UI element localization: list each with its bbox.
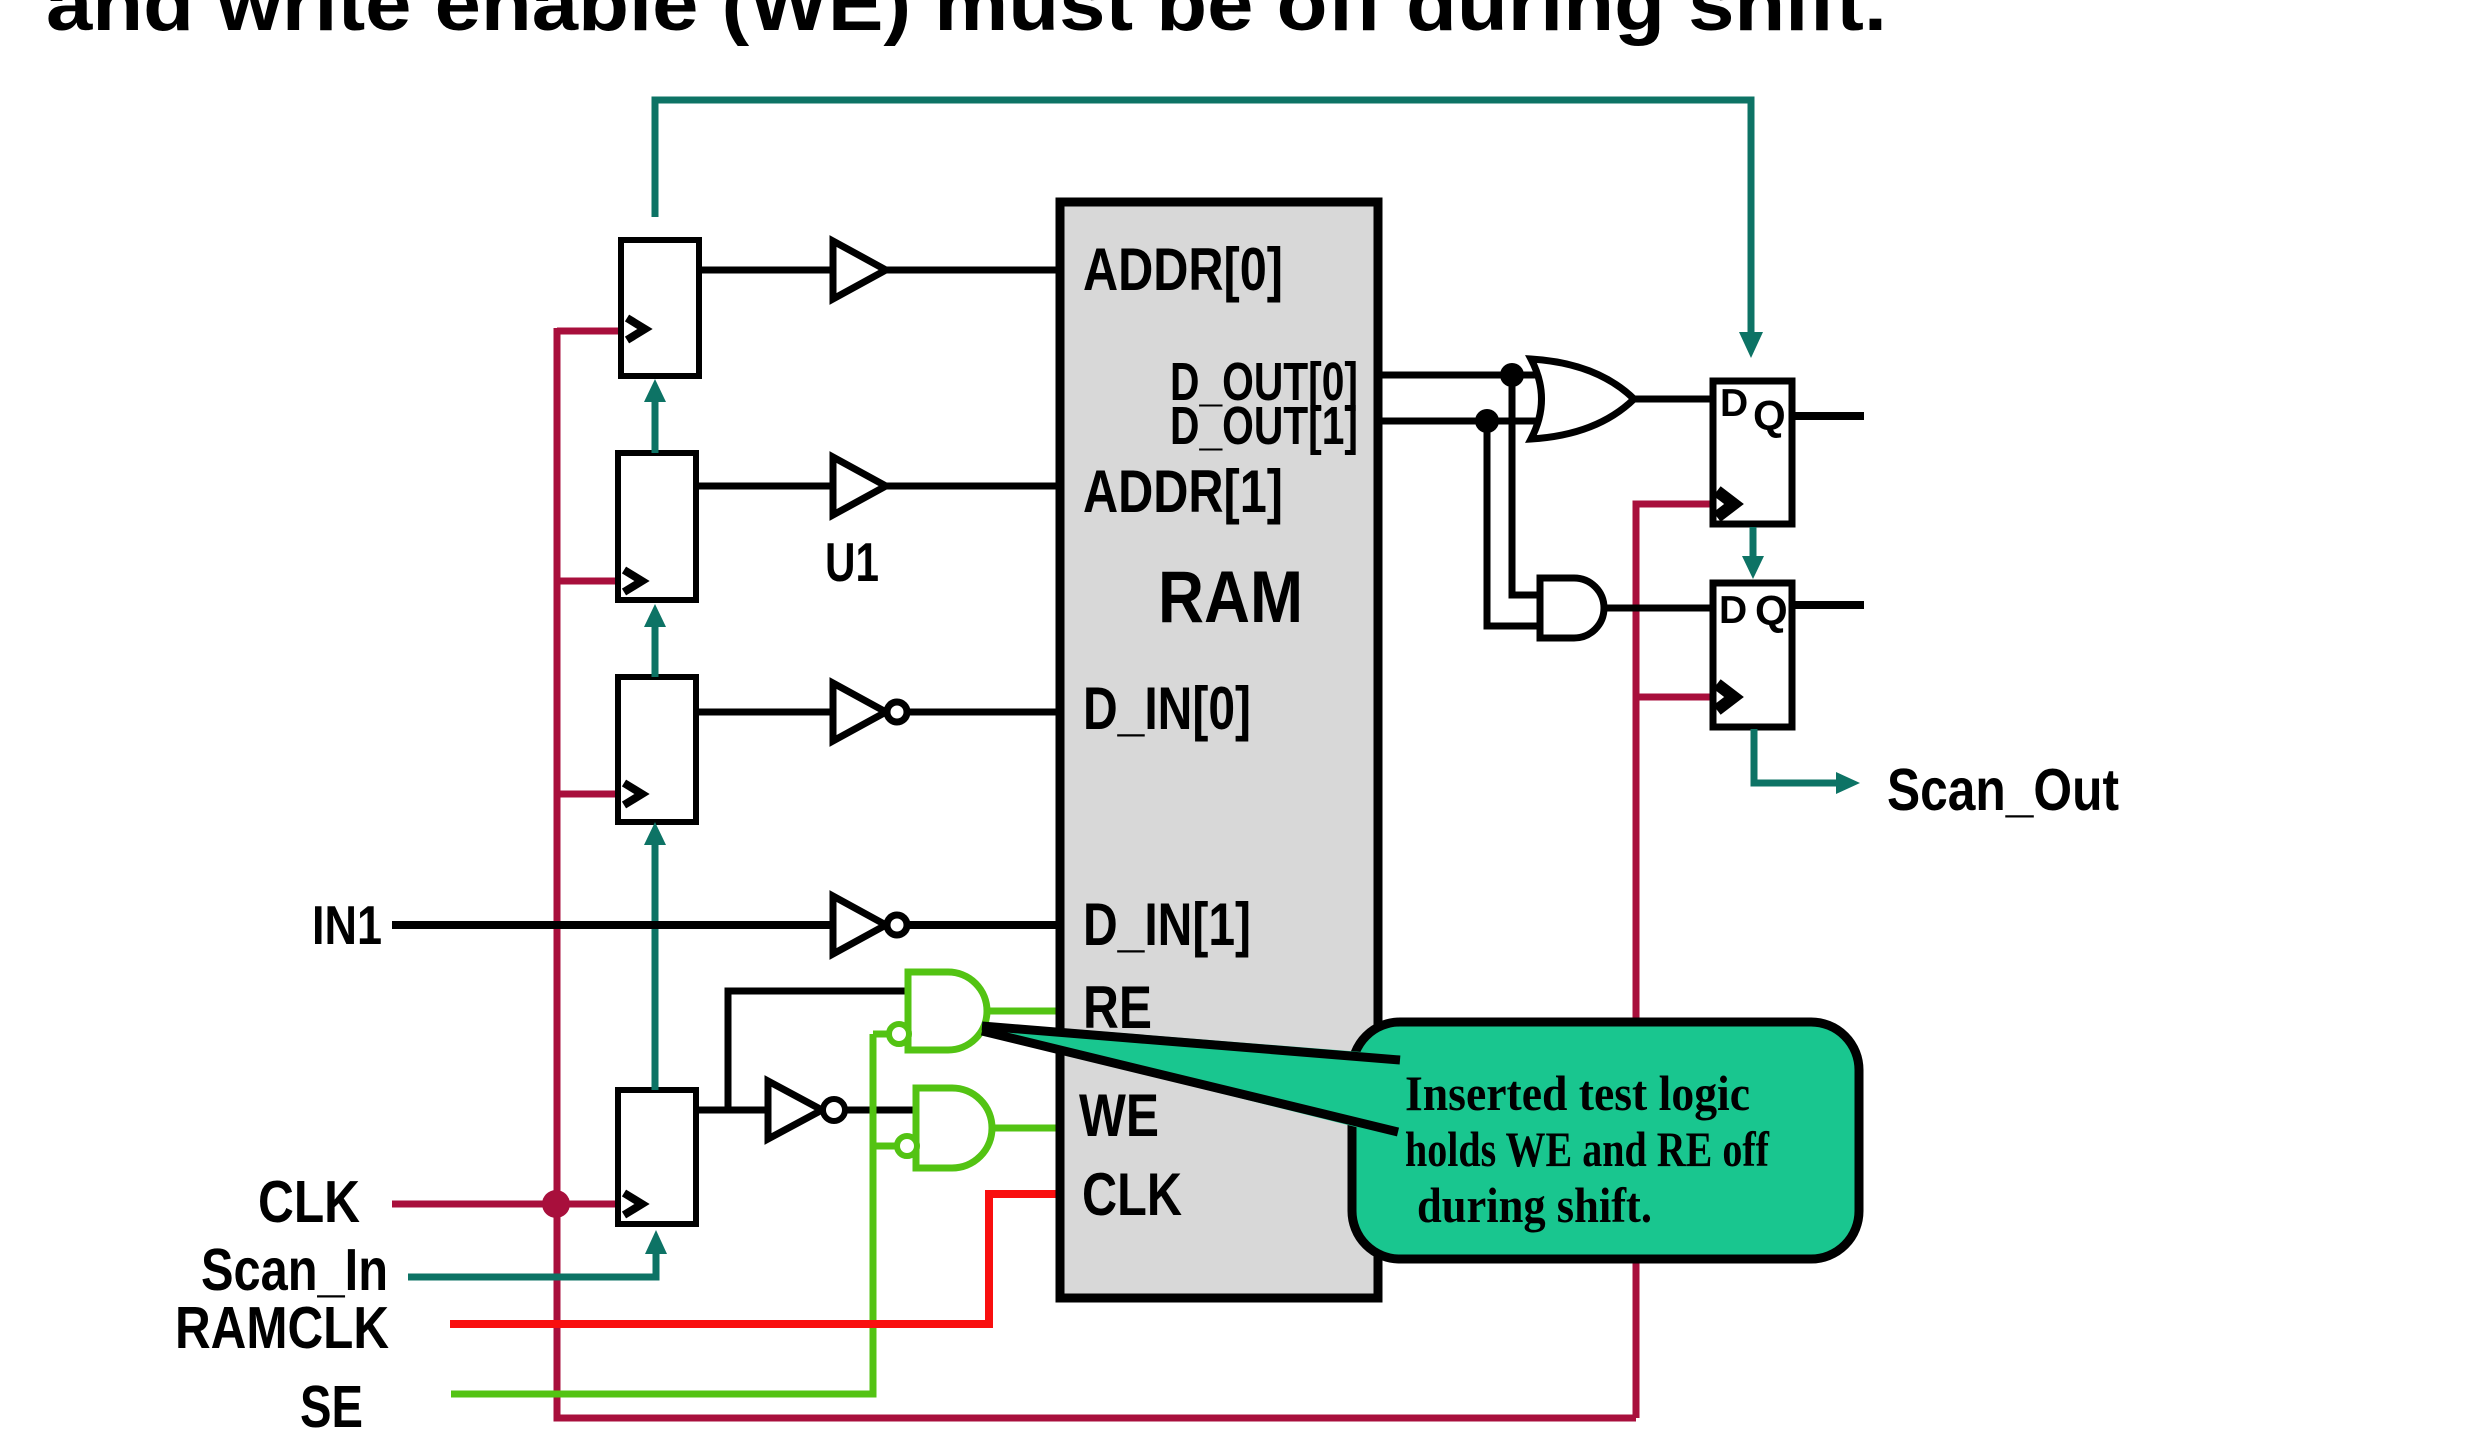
wire inverter to WE NAND input <box>846 1107 916 1114</box>
flip-flop FF3 <box>618 677 696 822</box>
wire Scan_Out (teal) <box>1754 729 1836 783</box>
wire branch up to RE NAND input <box>728 991 908 1110</box>
wire RAMCLK (red) <box>450 1194 1060 1324</box>
wire DFF6 Q out <box>1792 601 1864 609</box>
buffer U1b <box>833 457 886 515</box>
and gate AND1 <box>1540 578 1604 638</box>
wire SE stub to RE NAND bubble <box>873 1031 890 1038</box>
wire scan arrow FF3 to FF2 (teal) <box>652 626 659 677</box>
wire arrowhead into DFF5 <box>1739 332 1763 358</box>
wire FF4 Q to inverter INV3 <box>696 1107 770 1114</box>
svg-text:SE: SE <box>300 1374 363 1440</box>
wire D_OUT[1] <box>1378 418 1536 425</box>
svg-text:WE: WE <box>1079 1082 1159 1149</box>
svg-text:Scan_Out: Scan_Out <box>1887 757 2119 823</box>
flip-flop DFF5 <box>1713 381 1792 524</box>
buffer U1a <box>833 241 886 299</box>
nand gate RE (green) <box>908 972 987 1050</box>
wire CLK net (maroon) vertical trunk <box>557 328 1636 1418</box>
svg-text:Inserted test logic: Inserted test logic <box>1405 1065 1750 1121</box>
wire FF3 to inverter <box>696 709 836 716</box>
wire RE NAND out to RAM <box>985 1008 1060 1015</box>
wire buffer to ADDR[1] <box>886 483 1060 490</box>
svg-text:Scan_In: Scan_In <box>201 1237 388 1303</box>
wire WE NAND out to RAM <box>990 1125 1060 1132</box>
svg-text:CLK: CLK <box>258 1169 360 1235</box>
wire Scan_In (teal) <box>408 1253 656 1277</box>
wire scan-chain feedback (teal) <box>655 100 1751 336</box>
inverter INV2 <box>833 896 886 954</box>
wire FF1 to buffer U1a <box>699 267 836 274</box>
wire OR1 out to DFF5 D <box>1633 396 1710 403</box>
flip-flop FF1 <box>621 240 699 376</box>
wire CLK input <box>392 1201 618 1208</box>
svg-text:Q: Q <box>1755 587 1788 634</box>
callout tail <box>982 1022 1400 1138</box>
svg-text:ADDR[0]: ADDR[0] <box>1083 236 1283 303</box>
svg-text:D: D <box>1719 589 1747 632</box>
wire SE net (green) <box>451 1034 873 1394</box>
svg-text:RAMCLK: RAMCLK <box>175 1295 389 1361</box>
junction CLK dot <box>542 1190 570 1218</box>
junction dot D_OUT[1] <box>1475 409 1499 433</box>
svg-text:D_IN[1]: D_IN[1] <box>1083 891 1251 958</box>
wire CLK stub to FF3 <box>557 791 618 798</box>
flip-flop FF2 <box>618 453 696 600</box>
wire CLK right trunk (maroon) <box>1636 504 1713 1418</box>
wire CLK stub to FF2 <box>557 578 618 585</box>
wire IN1 to inverter <box>392 921 836 929</box>
wire SE stub to WE NAND bubble <box>873 1143 898 1150</box>
svg-text:D_OUT[1]: D_OUT[1] <box>1170 396 1358 456</box>
wire D_OUT[0] <box>1378 372 1545 379</box>
inverter INV3 <box>768 1081 822 1139</box>
junction dot D_OUT[0] <box>1500 363 1524 387</box>
svg-text:U1: U1 <box>825 531 879 593</box>
wire inverter to D_IN[1] <box>907 921 1060 929</box>
wire scan arrow FF4 to FF3 (teal) <box>652 843 659 1090</box>
flip-flop FF4 <box>618 1090 696 1224</box>
svg-text:Q: Q <box>1753 392 1786 439</box>
wire AND1 out to DFF6 D <box>1604 605 1713 612</box>
nand gate WE (green) <box>916 1088 992 1168</box>
svg-text:IN1: IN1 <box>312 894 382 956</box>
wire CLK stub to FF1 <box>557 328 618 335</box>
wire buffer to ADDR[0] <box>886 267 1060 274</box>
wire inverter to D_IN[0] <box>907 709 1060 716</box>
RAM block <box>1060 202 1378 1298</box>
wire scan arrow DFF5 to DFF6 (teal) <box>1750 527 1757 558</box>
svg-text:RAM: RAM <box>1158 557 1303 638</box>
svg-text:ADDR[1]: ADDR[1] <box>1083 458 1283 525</box>
wire CLK stub to DFF6 <box>1636 694 1713 701</box>
inverter INV1 <box>833 683 886 741</box>
svg-text:CLK: CLK <box>1082 1161 1182 1228</box>
or gate OR1 <box>1531 359 1634 439</box>
svg-text:during shift.: during shift. <box>1417 1177 1652 1233</box>
wire DFF5 Q out <box>1792 412 1864 420</box>
flip-flop DFF6 <box>1713 583 1792 727</box>
callout bubble <box>1352 1022 1859 1259</box>
wire scan arrow FF2 to FF1 (teal) <box>652 400 659 453</box>
svg-text:D_IN[0]: D_IN[0] <box>1083 675 1251 742</box>
svg-text:and write enable (WE) must be: and write enable (WE) must be off during… <box>46 0 1887 47</box>
wire FF2 to buffer U1b <box>696 483 836 490</box>
svg-text:D: D <box>1720 382 1748 425</box>
svg-text:holds WE and RE off: holds WE and RE off <box>1405 1121 1770 1177</box>
wire D_OUT[0] to AND top input <box>1512 375 1545 595</box>
wire D_OUT[1] to AND bottom input <box>1487 421 1545 626</box>
